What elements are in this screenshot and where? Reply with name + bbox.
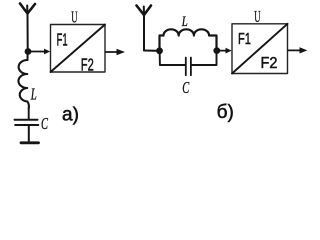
antenna A2 (circuit b) — [137, 6, 152, 51]
svg-text:L: L — [181, 14, 188, 30]
inductor L (tank top branch, circuit b) — [160, 29, 217, 48]
svg-text:F1: F1 — [57, 29, 68, 49]
amplifier U box (circuit b) — [232, 24, 288, 74]
wire with arrow from node A to amplifier U input (circuit a) — [30, 49, 50, 55]
amplifier U box (circuit a) — [51, 25, 106, 73]
caption a) — [62, 104, 79, 125]
label L (circuit a) — [30, 84, 37, 103]
label F1 (circuit a) — [57, 29, 68, 49]
node B1 (tank left node, circuit b) — [156, 47, 163, 54]
svg-text:U: U — [254, 7, 260, 26]
label L (circuit b) — [181, 14, 188, 30]
inductor L (circuit a) — [18, 60, 28, 109]
capacitor C (tank bottom branch, circuit b) — [160, 54, 217, 75]
ground — [21, 141, 39, 144]
svg-text:C: C — [182, 78, 190, 97]
wire from inductor to capacitor (circuit a) — [28, 109, 30, 120]
wire with output arrow (circuit b) — [288, 47, 307, 53]
label F2 (circuit a) — [81, 55, 94, 75]
svg-text:F2: F2 — [81, 55, 94, 75]
label F2 (circuit b) — [261, 55, 278, 72]
wire with output arrow (circuit a) — [106, 49, 126, 55]
svg-text:F2: F2 — [261, 55, 278, 72]
svg-text:F1: F1 — [238, 31, 251, 48]
svg-text:а): а) — [62, 104, 79, 125]
svg-text:б): б) — [217, 102, 234, 123]
svg-text:U: U — [71, 7, 77, 26]
wire from capacitor to ground (circuit a) — [28, 126, 30, 142]
svg-text:L: L — [30, 84, 37, 103]
label U (circuit a) — [71, 7, 77, 26]
label C (circuit a) — [41, 114, 49, 133]
node A (junction, circuit a) — [25, 48, 32, 55]
wire with arrow from node B2 to amplifier U input (circuit b) — [219, 48, 232, 54]
node B2 (tank right node, circuit b) — [213, 47, 220, 54]
caption b) — [217, 102, 234, 123]
label U (circuit b) — [254, 7, 260, 26]
capacitor C (circuit a) — [15, 120, 39, 125]
wire from antenna A2 to tank left node (circuit b) — [144, 50, 156, 52]
antenna A1 (circuit a) — [20, 4, 35, 49]
wire from node A down to inductor (circuit a) — [27, 54, 29, 60]
label C (circuit b) — [182, 78, 190, 97]
svg-text:C: C — [41, 114, 49, 133]
label F1 (circuit b) — [238, 31, 251, 48]
